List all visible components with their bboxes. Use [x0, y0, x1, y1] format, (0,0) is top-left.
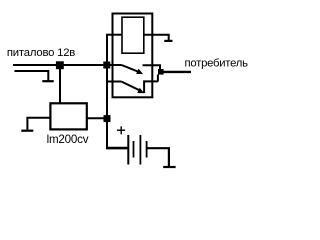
ground (coil return)	[164, 40, 172, 42]
wire (coil right stub)	[144, 35, 169, 40]
relay K1 body	[113, 14, 153, 98]
relay coil	[122, 17, 144, 53]
node (junction regulator output / battery)	[104, 115, 111, 122]
ground (regulator left pin)	[27, 118, 50, 130]
svg-text:питалово 12в: питалово 12в	[7, 47, 75, 59]
wire (battery positive lead)	[106, 147, 128, 150]
wire (regulator top pin to rail)	[59, 65, 61, 103]
node (junction to regulator)	[56, 61, 64, 69]
node (junction to relay branch)	[103, 62, 110, 69]
wire (throw 1 to output pad)	[143, 65, 161, 69]
wire (coil left stub)	[106, 34, 122, 36]
wire (vertical branch x=107 down to battery)	[106, 35, 108, 149]
switch contact 1 (movable arm)	[122, 65, 140, 72]
svg-text:lm200cv: lm200cv	[47, 133, 89, 146]
wire (output to load)	[163, 71, 191, 73]
wire (throw 2)	[144, 81, 158, 93]
battery BT1 (cell plates)	[127, 135, 129, 165]
svg-text:потребитель: потребитель	[185, 58, 249, 70]
switch contact 2 (movable arm with arrow)	[121, 82, 140, 91]
regulator U1 box	[50, 103, 86, 129]
node (output pad)	[158, 69, 164, 75]
ground (tap below supply wire)	[15, 71, 49, 81]
switch contact 2 (pole stub)	[107, 81, 121, 83]
ground (battery return)	[163, 166, 175, 168]
label "+" (battery polarity)	[117, 129, 125, 131]
wire (main +12V rail)	[13, 64, 122, 66]
wire (regulator right pin)	[87, 117, 104, 119]
wire (battery negative lead)	[147, 148, 169, 166]
